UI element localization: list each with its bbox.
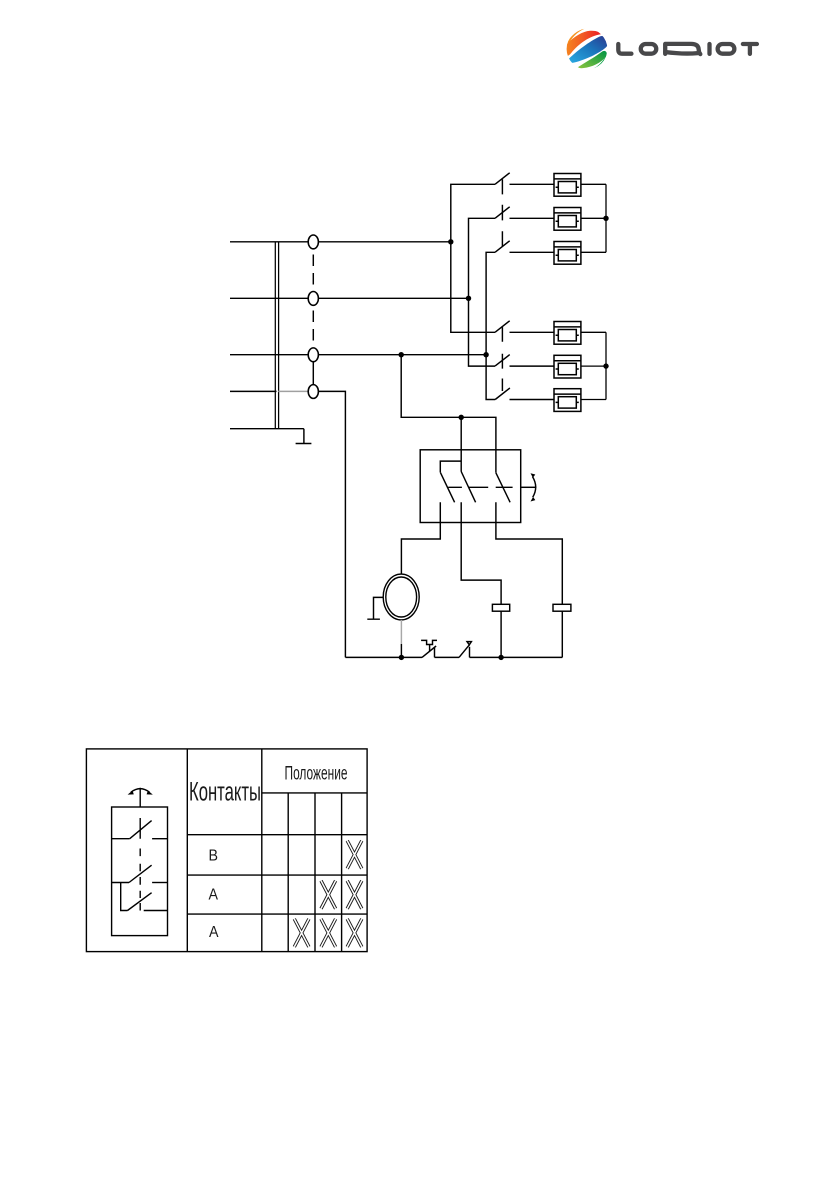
svg-text:А: А <box>209 924 219 941</box>
connector linkage dashed <box>312 255 314 289</box>
svg-text:В: В <box>209 848 219 865</box>
switch SK2 actuator triangle <box>467 642 471 645</box>
mode switch actuator lead <box>521 486 537 488</box>
wire feeder V1 <box>451 184 495 332</box>
wire phase L1 <box>230 241 451 243</box>
symbol contact 3 blade <box>128 893 152 911</box>
letter T <box>743 44 757 54</box>
junction dot lower bus <box>603 363 608 368</box>
heating element EK5 <box>554 355 581 378</box>
symbol L-wire to contact 3 <box>121 883 128 911</box>
contact SA2.3 right lead <box>510 399 555 401</box>
X marks <box>294 841 362 947</box>
contact SA2.2 blade <box>495 355 510 367</box>
wire neutral N left segment <box>230 390 277 392</box>
heating element EK1 <box>554 174 581 197</box>
symbol contact 1 left lead <box>112 838 130 840</box>
table outer frame <box>86 749 367 952</box>
svg-text:А: А <box>209 887 219 904</box>
junction dot feed line <box>459 415 464 420</box>
mode switch pole 1 blade <box>440 472 454 502</box>
mode switch SA3 box <box>420 450 521 523</box>
letter O <box>718 44 735 54</box>
wire feeder V3 <box>486 252 495 399</box>
contact SA1.3 blade <box>495 241 510 253</box>
wire bottom run right <box>470 656 563 658</box>
connector pin X3 <box>308 348 318 362</box>
linkage SA2 dashed <box>501 327 503 391</box>
connector pin X2 <box>308 292 318 306</box>
junction dot L3/V3 <box>483 352 488 357</box>
table row line 1 <box>187 834 367 836</box>
wire phase L3 <box>230 354 486 356</box>
wire pole 1 bottom to motor <box>401 502 440 574</box>
X mark row A1 col 4 <box>347 881 362 909</box>
mode switch pole 2 blade <box>461 472 475 503</box>
svg-text:Положение: Положение <box>285 763 348 784</box>
table row line 3 <box>187 913 367 915</box>
contact SA1.1 right lead <box>510 183 555 185</box>
wire element EK3 output <box>581 251 606 253</box>
mode switch pole 1 top link <box>440 461 461 472</box>
contact SA2.2 right lead <box>510 365 555 367</box>
symbol contact 1 blade <box>130 821 152 839</box>
linkage SA1 dashed <box>501 179 503 246</box>
contact SA1.3 right lead <box>510 251 555 253</box>
heating element EK4 <box>554 322 581 345</box>
switch SK2 fixed lead <box>469 647 471 658</box>
wire bottom run middle <box>435 656 460 658</box>
mode switch linkage dashed <box>448 486 512 488</box>
wire neutral N gray segment <box>278 390 308 392</box>
wire element EK2 output <box>581 217 606 219</box>
wire C1 bottom <box>500 611 502 657</box>
wire right bus lower group <box>605 332 607 399</box>
X mark row A2 col 2 <box>294 919 309 947</box>
connector pin X4 <box>308 385 318 399</box>
symbol contact 2 right lead <box>152 882 167 884</box>
wire neutral N right segment <box>318 391 345 657</box>
wire phase L2 <box>230 297 469 299</box>
wire phase L3 branch to mode switch <box>401 355 496 473</box>
contact SA1.2 blade <box>495 207 510 219</box>
wire C2 bottom <box>561 611 563 657</box>
wire pole 3 bottom to capacitor C2 <box>496 502 562 604</box>
motor M1 inner <box>386 577 417 617</box>
motor M1 outer <box>383 574 419 620</box>
wire feeder V2 <box>469 218 496 366</box>
junction dot L2/V2 <box>466 296 471 301</box>
globe band thin orange crescent <box>566 29 585 47</box>
contact SA2.1 right lead <box>510 331 555 333</box>
symbol actuator stem <box>139 788 141 807</box>
junction dot top bus <box>603 216 608 221</box>
symbol contact 3 right lead <box>144 910 168 912</box>
thermal switch SK1 cup symbol <box>421 640 437 651</box>
connector linkage solid <box>312 362 314 386</box>
junction dot motor lead <box>399 655 404 660</box>
wire right bus top group <box>605 184 607 252</box>
mode switch rotation arc arrow <box>533 477 536 498</box>
letter R <box>665 44 700 54</box>
globe band green <box>577 51 607 68</box>
logo LORIOT globe icon <box>561 29 608 71</box>
wire element EK6 output <box>581 399 606 401</box>
table divider symbol/contacts <box>186 749 188 952</box>
heating elements <box>554 174 606 412</box>
switch SK2 blade <box>459 645 470 658</box>
svg-text:Контакты: Контакты <box>189 777 261 807</box>
thermal switch SK1 blade <box>422 646 436 657</box>
capacitor C2 <box>553 604 571 611</box>
junction dot C1 lead <box>498 655 503 660</box>
heating element EK3 <box>554 242 581 265</box>
thermal switch SK1 fixed lead <box>434 648 436 658</box>
globe band thin green crescent <box>593 55 607 71</box>
junction dot L3 branch <box>399 352 404 357</box>
motor bottom lead <box>400 644 402 657</box>
X mark row A2 col 3 <box>321 919 336 947</box>
symbol box <box>112 807 168 936</box>
table divider contacts/positions <box>261 749 263 952</box>
letter O <box>641 44 657 54</box>
junction dot L1/V1 <box>448 239 453 244</box>
table position subcolumn dividers <box>288 793 341 952</box>
heating element EK2 <box>554 208 581 231</box>
table row line 2 <box>187 874 367 876</box>
mode switch pole 3 blade <box>496 473 510 503</box>
logo LORIOT wordmark <box>618 44 757 54</box>
heating element EK6 <box>554 389 581 412</box>
capacitor C1 <box>492 604 509 611</box>
X mark row B col 4 <box>347 841 362 869</box>
contact SA2.1 blade <box>495 321 510 333</box>
symbol rotation arc arrow <box>131 789 150 793</box>
symbol contact 2 blade <box>129 865 152 882</box>
wire element EK5 output <box>581 365 606 367</box>
wire branch to mode switch terminal 2 <box>460 417 462 471</box>
table texts <box>189 763 348 941</box>
contact SA2.3 blade <box>495 388 510 400</box>
wire pole 2 bottom to capacitor C1 <box>461 502 501 604</box>
ground PE symbol <box>296 429 312 444</box>
contact SA1.1 blade <box>495 173 510 185</box>
connector pin X1 <box>308 235 318 249</box>
symbol linkage dashed <box>139 818 141 911</box>
wire PE <box>230 428 304 430</box>
bus double line <box>275 242 278 429</box>
globe band orange-red <box>561 31 601 57</box>
motor bottom lead gray <box>400 620 402 644</box>
symbol contact 2 left lead <box>112 882 129 884</box>
globe band blue <box>568 36 607 63</box>
table header underline <box>262 792 367 794</box>
symbol contact 1 right lead <box>152 838 167 840</box>
wire element EK4 output <box>581 331 606 333</box>
X mark row A1 col 3 <box>321 881 336 909</box>
wire bottom run left <box>345 656 422 658</box>
wire element EK1 output <box>581 183 606 185</box>
motor case ground <box>367 597 383 619</box>
letter I <box>707 44 711 54</box>
letter L <box>618 44 631 54</box>
contact SA1.2 right lead <box>510 217 555 219</box>
X mark row A2 col 4 <box>347 919 362 947</box>
